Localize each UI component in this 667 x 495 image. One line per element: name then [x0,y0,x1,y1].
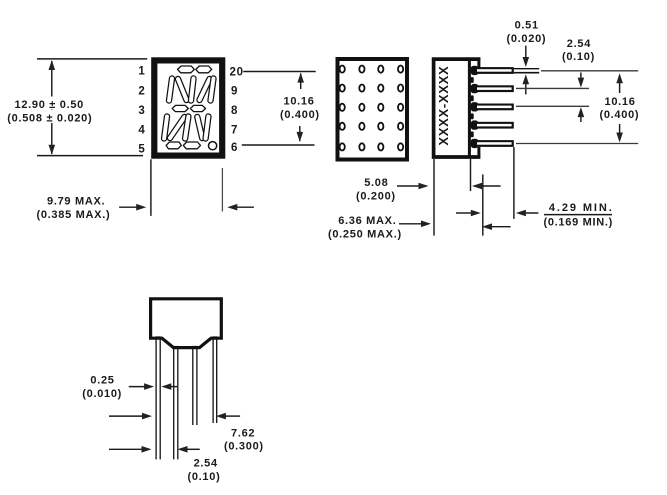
dimension text 10.16 front [280,95,320,121]
svg-text:(0.250 MAX.): (0.250 MAX.) [328,228,402,240]
svg-text:2: 2 [138,85,145,97]
side lower extension line L2 [470,159,472,191]
segment f [169,79,172,101]
svg-text:1: 1 [138,66,145,78]
segment g1 [172,105,188,111]
pin 8 label [231,105,238,117]
segment g2 [190,105,205,111]
side view bottom ledge [477,147,480,157]
rear view pin grid [340,66,404,151]
svg-text:XXXX-XXXX: XXXX-XXXX [436,66,451,146]
svg-text:(0.10): (0.10) [562,51,595,63]
dimension 5.08 arrows [397,183,501,190]
pin 20 label [230,67,244,79]
svg-text:(0.200): (0.200) [356,190,396,202]
svg-text:9: 9 [231,85,238,97]
svg-text:8: 8 [231,105,238,117]
svg-text:(0.385 MAX.): (0.385 MAX.) [37,209,111,221]
dimension text 10.16 side [600,96,640,121]
dimension text 0.25 [82,375,122,400]
bottom view pin 1 [156,337,160,459]
pin 4 label [138,125,145,137]
dimension 12.90 extension line top [37,58,147,60]
dimension text 2.54 side [562,38,595,63]
segment d2 [183,142,200,149]
bottom view pin 2 [174,347,178,460]
svg-text:5.08: 5.08 [364,177,388,189]
svg-text:0.25: 0.25 [90,375,114,387]
dimension 12.90 arrow line [49,60,56,155]
svg-text:10.16: 10.16 [605,96,636,108]
pin 2 label [138,85,145,97]
segment a1 [178,66,195,73]
svg-text:(0.508 ± 0.020): (0.508 ± 0.020) [7,112,92,124]
dimension text 12.90 [6,97,95,125]
dimension 12.90 extension line bottom [37,155,143,157]
segment c [206,117,209,139]
svg-text:6.36 MAX.: 6.36 MAX. [338,215,396,227]
dimension 2.54 side arrows [578,73,585,123]
side view wall teeth [471,77,474,137]
side lower extension line L1 [433,159,435,236]
pin 9 label [231,85,238,97]
segment d1 [166,142,181,149]
svg-text:2.54: 2.54 [194,458,218,470]
svg-text:0.51: 0.51 [515,20,539,32]
side lower extension line L4 [513,147,515,219]
segment h [178,79,187,100]
svg-text:7: 7 [231,125,238,137]
dimension text 7.62 [224,427,264,452]
svg-text:7.62: 7.62 [231,427,255,439]
side extension line pin1 [541,70,638,72]
dimension 2.54 bottom arrows [109,446,200,453]
part number text XXXX-XXXX [436,66,451,146]
bottom view package outline [151,299,222,348]
dimension 10.16 front arrows [297,73,305,142]
dimension 9.79 MAX extension line left [150,159,152,216]
svg-text:5: 5 [138,144,145,156]
dimension 7.62 arrows [109,413,240,420]
svg-text:20: 20 [230,67,244,79]
dimension text 5.08 [356,177,396,202]
dimension 9.79 MAX extension line right [221,168,223,212]
dimension 0.25 arrows [129,383,177,390]
side view pin 5 [471,139,514,148]
svg-text:12.90 ± 0.50: 12.90 ± 0.50 [15,99,85,111]
svg-text:9.79 MAX.: 9.79 MAX. [47,196,105,208]
pin 5 label [138,144,145,156]
svg-text:(0.169 MIN.): (0.169 MIN.) [544,217,614,229]
segment j [200,79,210,100]
svg-text:(0.010): (0.010) [82,388,122,400]
svg-text:10.16: 10.16 [284,95,315,107]
bottom view pin 4 [213,337,217,423]
pin 1 label [138,66,145,78]
side view package body [434,59,481,157]
pin 7 label [231,125,238,137]
segment e [164,117,167,139]
side view pin 3 [471,102,514,111]
dimension text 0.51 [507,20,547,45]
bottom view pin 3 [193,347,197,426]
dimension 10.16 front extension line top [243,71,315,73]
side extension line pin3 [516,105,589,107]
dimension 6.36 MAX arrows [399,221,511,231]
dimension 4.29 MIN arrows [456,210,538,217]
side view pin 4 [471,120,514,129]
svg-text:(0.020): (0.020) [507,33,547,45]
svg-text:2.54: 2.54 [567,38,591,50]
svg-text:6: 6 [231,142,238,154]
dimension 0.51 arrows [523,46,530,95]
svg-text:4: 4 [138,125,145,137]
side view pin 1 [471,66,540,75]
dimension 10.16 side arrows [616,73,623,142]
svg-text:(0.400): (0.400) [600,109,640,121]
dimension text 6.36 MAX [328,215,402,240]
side lower extension line L3 [482,174,484,235]
pin 6 label [231,142,238,154]
dimension 10.16 front extension line bottom [242,144,315,146]
svg-text:4.29 MIN.: 4.29 MIN. [549,202,614,214]
decimal point [209,142,217,150]
side extension line pin5 [516,143,638,145]
svg-text:3: 3 [138,105,145,117]
side view pin 2 [471,84,514,93]
segment b [211,79,214,101]
dimension text 2.54 bottom [188,458,221,483]
svg-text:(0.400): (0.400) [280,109,320,121]
segment i [191,79,194,101]
dimension text 9.79 MAX [37,196,111,221]
rear view package outline [338,59,408,160]
segment a2 [196,66,212,73]
side extension line pin2 [516,87,589,89]
front view package outline [154,60,222,155]
16-segment digit [164,66,213,149]
dimension text 4.29 MIN [544,202,614,229]
segment k [170,117,184,138]
segment l [185,117,188,139]
side view top ledge [477,58,480,68]
svg-text:(0.10): (0.10) [188,471,221,483]
dimension 9.79 MAX arrows [119,204,254,211]
pin 3 label [138,105,145,117]
segment m [197,117,202,138]
svg-text:(0.300): (0.300) [224,441,264,453]
